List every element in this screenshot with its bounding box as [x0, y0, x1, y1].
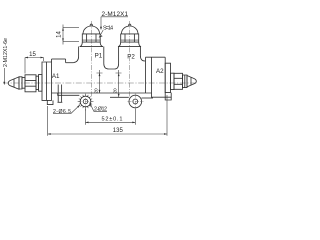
svg-text:A2: A2	[156, 68, 164, 75]
svg-text:A1: A1	[52, 73, 60, 80]
svg-text:135: 135	[113, 128, 124, 134]
svg-text:2-Ø6.5: 2-Ø6.5	[53, 109, 71, 115]
svg-text:S=14: S=14	[103, 25, 113, 31]
svg-text:52±0.1: 52±0.1	[102, 117, 123, 123]
svg-text:P1: P1	[95, 52, 103, 59]
svg-text:20: 20	[112, 88, 117, 94]
svg-text:14: 14	[56, 31, 62, 38]
svg-text:15: 15	[29, 52, 36, 58]
svg-text:2-M12X1-6e: 2-M12X1-6e	[3, 38, 9, 67]
svg-text:2-Ø12: 2-Ø12	[94, 107, 107, 113]
svg-text:20: 20	[93, 88, 98, 94]
svg-text:2-M12X1: 2-M12X1	[102, 11, 129, 18]
svg-text:P2: P2	[127, 54, 135, 61]
